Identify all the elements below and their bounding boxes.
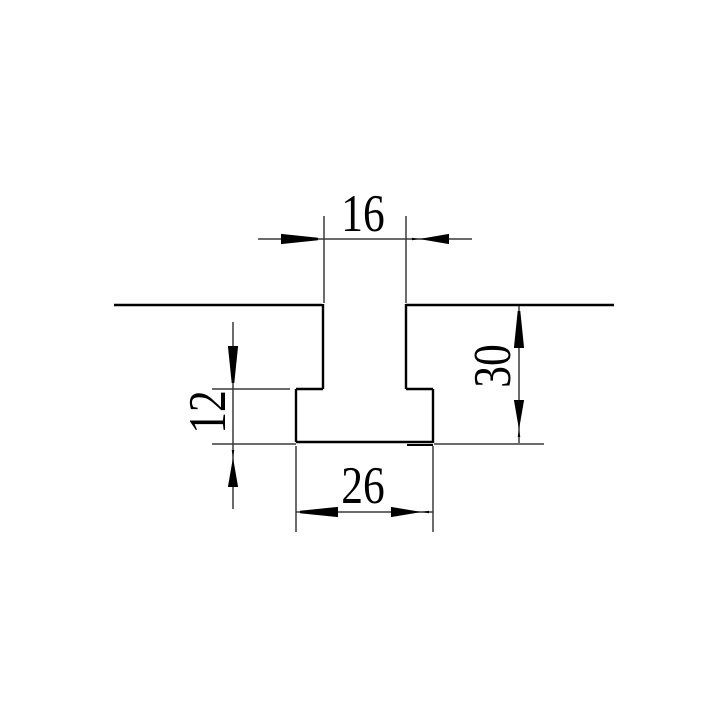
wire bottom double segment bbox=[407, 444, 433, 446]
wire right side vertical bbox=[432, 389, 434, 443]
svg-text:30: 30 bbox=[464, 344, 522, 387]
wire dim26 dimension line bbox=[296, 511, 433, 513]
svg-text:16: 16 bbox=[341, 185, 384, 243]
wire bottom line bbox=[296, 441, 433, 443]
wire top surface line left bbox=[114, 304, 322, 306]
svg-text:12: 12 bbox=[179, 390, 237, 433]
wire slot left vertical bbox=[322, 304, 324, 389]
node dim26 arrow right bbox=[391, 507, 429, 517]
node dim12 extension line upper bbox=[212, 388, 290, 390]
node dim12 extension line lower bbox=[212, 443, 296, 445]
wire top surface line right bbox=[406, 304, 614, 306]
node dim30 arrow up bbox=[514, 311, 524, 348]
svg-text:26: 26 bbox=[341, 457, 384, 515]
node dim26 extension line left bbox=[295, 446, 297, 532]
node dim30 dimension line bbox=[518, 306, 520, 443]
node dim26 extension line right bbox=[432, 446, 434, 532]
node dim16 extension line right bbox=[405, 216, 407, 303]
wire slot right vertical bbox=[405, 304, 407, 389]
node dim16 arrow left bbox=[281, 234, 318, 244]
node dim12 arrow up bbox=[228, 450, 238, 487]
wire dim12 dimension line bbox=[232, 322, 234, 509]
wire left side vertical bbox=[295, 389, 297, 442]
node dim26 arrow left bbox=[300, 507, 338, 517]
node dim30 arrow down bbox=[514, 400, 524, 437]
wire step left horizontal bbox=[296, 388, 323, 390]
node dim16 extension line left bbox=[323, 216, 325, 303]
node dim12 arrow down bbox=[228, 346, 238, 383]
node dim30 bottom extension line bbox=[434, 443, 544, 445]
wire dim16 dimension line bbox=[258, 238, 472, 240]
node dim16 arrow right bbox=[412, 234, 449, 244]
wire step right horizontal bbox=[406, 388, 433, 390]
